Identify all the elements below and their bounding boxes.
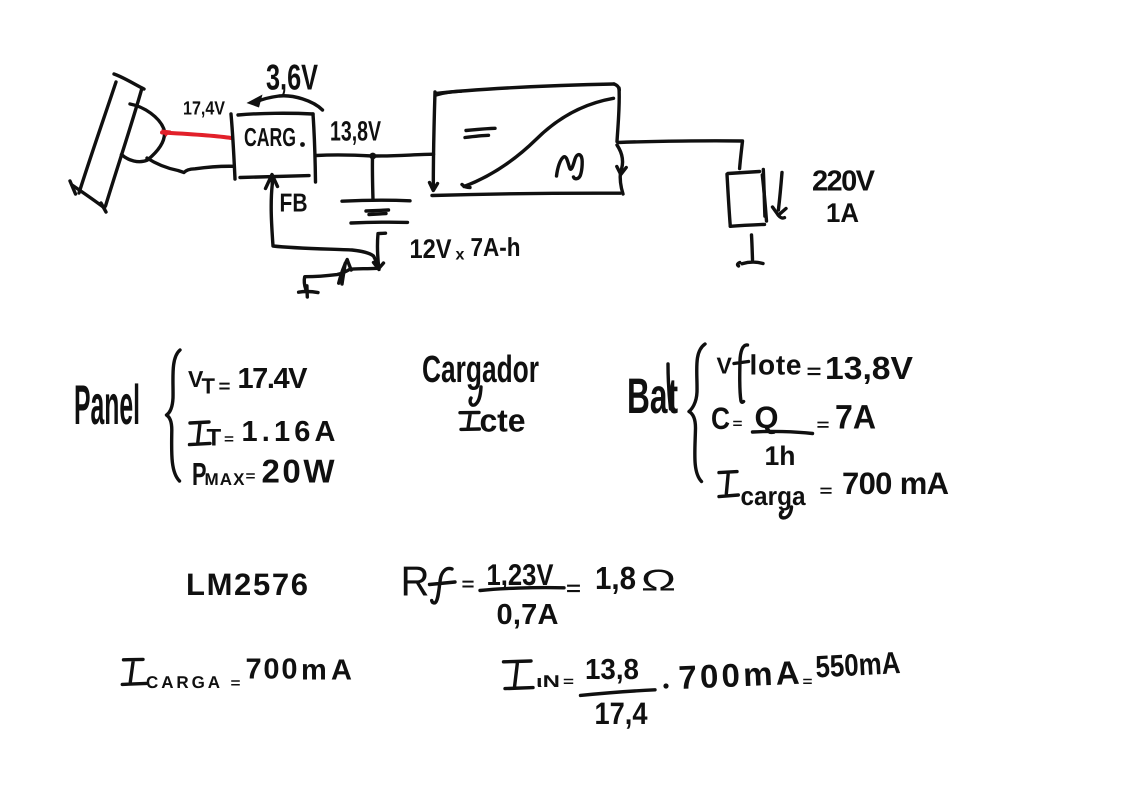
svg-text:Ω: Ω [641,565,676,598]
svg-text:1,8: 1,8 [595,560,636,596]
svg-text:=: = [219,376,231,396]
svg-text:lote: lote [750,350,802,381]
svg-text:x: x [456,247,465,264]
svg-text:13,8V: 13,8V [330,116,381,147]
svg-text:carga: carga [741,481,806,511]
svg-text:17.4V: 17.4V [238,363,309,395]
svg-text:Panel: Panel [74,373,140,436]
svg-text:13,8V: 13,8V [825,350,914,386]
svg-text:=: = [231,675,241,691]
svg-text:V: V [717,353,733,379]
svg-text:=: = [817,417,830,434]
svg-text:1.16A: 1.16A [242,416,336,448]
svg-text:=: = [224,431,234,447]
svg-text:20W: 20W [262,453,336,490]
svg-text:R: R [401,558,430,605]
svg-text:=: = [820,483,833,500]
svg-text:MAX: MAX [205,470,246,489]
svg-text:=: = [563,673,574,689]
svg-text:12V: 12V [410,234,452,264]
svg-text:700 mA: 700 mA [842,466,949,501]
svg-text:CARGA: CARGA [146,673,220,692]
svg-text:1A: 1A [826,198,859,228]
svg-text:7A: 7A [835,399,876,437]
svg-text:=: = [807,361,822,383]
svg-text:T: T [207,425,222,452]
svg-text:17,4V: 17,4V [183,99,225,120]
svg-text:3,6V: 3,6V [266,57,318,98]
svg-text:FB: FB [280,188,308,218]
svg-text:550mA: 550mA [815,645,902,684]
svg-text:7A-h: 7A-h [471,232,521,262]
svg-text:=: = [566,578,581,600]
svg-text:mA: mA [301,655,352,687]
svg-text:700: 700 [246,654,298,686]
svg-text:C: C [711,401,730,436]
svg-text:CARG: CARG [244,122,296,152]
svg-text:=: = [803,673,813,689]
svg-text:0,7A: 0,7A [497,599,559,631]
svg-text:=: = [246,468,256,484]
svg-text:13,8: 13,8 [585,654,639,686]
svg-text:T: T [202,374,216,399]
svg-text:220V: 220V [812,166,876,198]
svg-text:=: = [462,574,475,594]
svg-text:700mA: 700mA [678,654,800,696]
svg-text:ιN: ιN [536,672,560,691]
svg-text:=: = [733,415,743,431]
svg-text:17,4: 17,4 [595,696,649,731]
svg-text:cte: cte [480,403,526,439]
svg-text:1h: 1h [765,441,796,471]
svg-text:Cargador: Cargador [422,349,539,391]
